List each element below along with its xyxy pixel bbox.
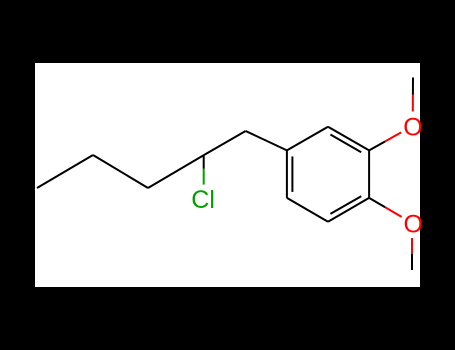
ring bond TL-T [287, 127, 328, 151]
ring bond TR-BR [368, 150, 370, 198]
aromatic inner line T-TR [330, 135, 361, 153]
bond TR-O1 split black/red [369, 141, 385, 150]
svg-text:Cl: Cl [191, 186, 215, 214]
ring bond BR-B [328, 198, 369, 222]
svg-text:O: O [404, 211, 423, 239]
ring bond B-BL [287, 198, 328, 222]
svg-text:O: O [403, 114, 422, 142]
bond BR-O2 split black/red [369, 198, 385, 208]
bond C2-C1 chain [204, 131, 246, 155]
bond C3-C2 chain [148, 155, 204, 188]
aromatic inner line BR-B [330, 196, 361, 214]
ring bond T-TR [328, 127, 369, 151]
bond C5-C4 chain [37, 155, 93, 188]
bond O1-CH3 split red/black [412, 95, 414, 112]
bond O2-CH3 split red/black [411, 238, 413, 254]
bond C2-Cl split black/green [203, 156, 205, 169]
bond C4-C3 chain [93, 155, 148, 188]
drawing canvas (white) [35, 63, 420, 287]
bond C1-ring attach at TL [246, 131, 287, 150]
ring bond BL-TL [286, 150, 288, 198]
aromatic inner line BL-TL [291, 156, 293, 192]
